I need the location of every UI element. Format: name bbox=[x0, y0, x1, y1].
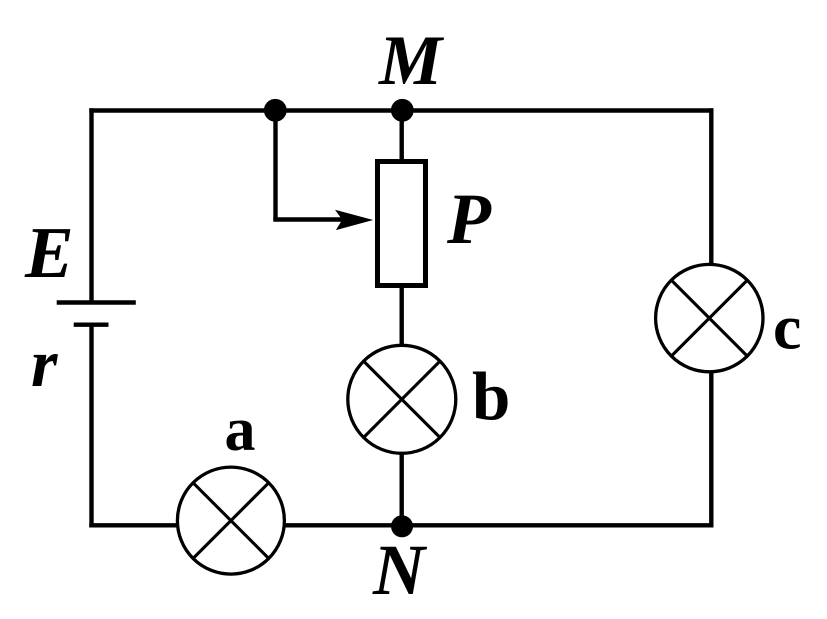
rheostat P rectangle bbox=[378, 162, 426, 286]
lamp a circle bbox=[177, 467, 284, 574]
wiper tap wire horizontal toward P bbox=[273, 217, 352, 221]
wire bottom from lamp a to N and right corner bbox=[284, 523, 713, 527]
lamp c circle bbox=[656, 264, 763, 371]
lamp b cross line NW-SE bbox=[364, 362, 439, 437]
lamp b cross line SW-NE bbox=[364, 362, 439, 437]
lamp a cross line NW-SE bbox=[194, 483, 269, 558]
wire right vertical from top corner to lamp c bbox=[709, 108, 713, 264]
node N dot bbox=[391, 515, 413, 537]
node M dot bbox=[391, 99, 414, 122]
wire from rheostat P down to lamp b bbox=[400, 288, 404, 346]
svg-text:P: P bbox=[446, 179, 492, 259]
wire top horizontal from battery top to right corner bbox=[89, 108, 713, 112]
lamp b circle bbox=[348, 345, 456, 453]
junction dot on top wire (wiper tap) bbox=[264, 99, 287, 122]
svg-text:b: b bbox=[472, 359, 510, 435]
svg-text:N: N bbox=[372, 530, 428, 610]
wire left vertical from top wire down to battery bbox=[89, 108, 93, 302]
wire left vertical from battery down to bottom wire bbox=[89, 325, 93, 528]
wiper arrowhead bbox=[335, 210, 373, 230]
lamp a cross line SW-NE bbox=[194, 483, 269, 558]
wire right vertical from lamp c to bottom corner bbox=[709, 372, 713, 528]
svg-text:r: r bbox=[31, 325, 58, 401]
svg-text:a: a bbox=[225, 396, 256, 464]
svg-text:E: E bbox=[24, 212, 74, 293]
battery short plate bbox=[74, 323, 109, 327]
battery E long plate bbox=[57, 300, 136, 304]
wire bottom from left corner to lamp a bbox=[89, 523, 177, 527]
lamp c cross line NW-SE bbox=[672, 281, 747, 356]
wire from lamp b down to N bbox=[400, 453, 404, 525]
wire from M down to rheostat P bbox=[400, 111, 404, 162]
svg-text:c: c bbox=[773, 292, 801, 363]
svg-text:M: M bbox=[378, 22, 445, 100]
wiper tap wire vertical from junction down bbox=[273, 111, 277, 220]
lamp c cross line SW-NE bbox=[672, 281, 747, 356]
